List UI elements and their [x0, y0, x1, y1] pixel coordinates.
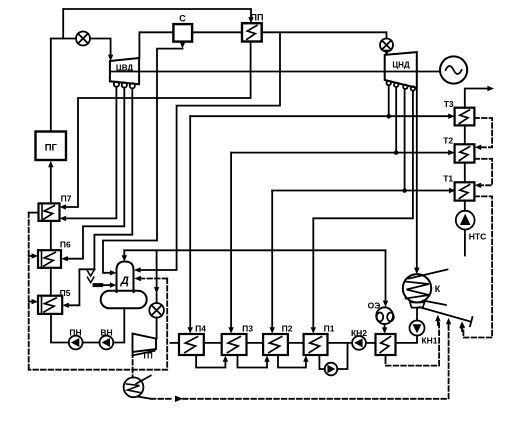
wire: P1 to P2 condensate: [288, 342, 304, 344]
svg-text:КН1: КН1: [421, 336, 437, 346]
wire: P3 to P4 condensate: [204, 342, 222, 344]
gland steam cooler SP: [124, 376, 151, 399]
CVD extraction nozzle 3: [130, 83, 135, 88]
wire: KN1 to OE cooler: [396, 336, 418, 343]
wire: SP drain (dashed) to condenser: [151, 398, 172, 400]
HP heater P7 box: [39, 194, 72, 221]
wire: KN2 to P1: [328, 342, 353, 344]
turbine HP cylinder CVD: [110, 58, 139, 84]
HP heater P5 box: [38, 288, 71, 314]
LP heater P3 box: [222, 324, 253, 356]
wire: extraction 3 down to junction: [404, 89, 406, 191]
end bar of drains header: [470, 317, 472, 326]
wire: extraction 4 to P1: [313, 91, 413, 329]
wire: into deaerator lower-left with arrow: [103, 284, 111, 286]
wire: extraction 1 drop to P4: [189, 116, 191, 328]
CND extraction nozzle 3: [403, 85, 407, 89]
wire: CVD extraction 1 to P7 lower inlet: [65, 87, 117, 219]
drain inlet arrow 2 (from SP cooler): [446, 318, 451, 325]
svg-text:ПП: ПП: [251, 13, 264, 23]
wire: fresh steam to HP cylinder inlet: [90, 39, 111, 57]
wire: network water line through T heaters: [465, 89, 489, 108]
generator G: [440, 56, 467, 83]
wire: VN to PN: [83, 342, 100, 344]
wire: branch to P5 inlet: [67, 269, 94, 305]
wire: extraction 1 down to junction: [388, 85, 390, 116]
wire: OE cooler to pump KN2: [366, 342, 376, 344]
condenser K: [403, 274, 441, 302]
wire: T3 to T2: [464, 125, 466, 144]
svg-text:ПН: ПН: [69, 327, 81, 337]
wire: TP exhaust (dashed) to gland steam cooler: [132, 353, 134, 378]
wire: P3 drain cascade to P2: [238, 355, 268, 368]
wire: extraction 1 header to T3: [190, 115, 450, 117]
svg-text:Т1: Т1: [443, 173, 453, 183]
pump KN1: [410, 321, 438, 346]
wire: T1 to NTC pump: [464, 201, 466, 211]
reducing valve (double chevron) on deaerator steam line: [91, 268, 95, 270]
wire: PP drain down and to P7 upper inlet: [65, 42, 251, 208]
pump NTC (network heat pump): [456, 211, 486, 242]
wire: T3 drain (dashed) to T2: [474, 118, 492, 147]
drain pump DN: [325, 363, 338, 376]
wire: PP heating steam tap (top line): [63, 9, 251, 39]
drive turbine TP: [133, 334, 157, 361]
wire: deaerator steam supply header: [124, 249, 385, 251]
wire: reheated steam PP to LP stop valve: [262, 32, 387, 38]
wire: separator drain to deaerator upper-left: [103, 49, 183, 273]
wire: CVD exhaust to separator: [139, 32, 173, 58]
valve V2 before LP cylinder: [380, 39, 393, 52]
LP heater P2 box: [263, 324, 293, 356]
wire: CVD extraction 3 down: [94, 88, 132, 269]
valve V3 before drive turbine: [149, 303, 164, 318]
main ejector OE: [368, 301, 394, 325]
HP heater P6 box: [38, 240, 71, 268]
wire: T2 drain (dashed) to T1: [474, 159, 492, 186]
wire: feedwater P5 to P6: [50, 268, 52, 296]
svg-text:КН2: КН2: [351, 328, 367, 338]
wire: feedwater P7 to PG with arrow: [50, 166, 52, 203]
svg-text:П3: П3: [242, 324, 253, 334]
wire: P1 drain to drain pump: [319, 355, 324, 369]
pump PN (feed pump): [69, 327, 83, 349]
wire: drain pump to condensate line: [337, 343, 347, 369]
turbine LP cylinder CND: [385, 52, 417, 88]
svg-text:П5: П5: [60, 288, 71, 298]
svg-text:П7: П7: [61, 194, 72, 204]
svg-text:К: К: [435, 284, 441, 294]
pump KN2: [351, 328, 367, 350]
svg-text:П1: П1: [324, 324, 335, 334]
network heater T1 box: [443, 173, 474, 200]
svg-text:ВН: ВН: [100, 327, 112, 337]
arrow at separator bottom: [180, 42, 185, 48]
circulating water pipe upper: [409, 270, 448, 279]
drain inlet arrow 3 (from T heaters): [459, 321, 464, 328]
pump VN (booster): [100, 327, 114, 349]
wire: CND exhaust to condenser: [416, 88, 418, 269]
node: junction extraction2/T2/P3: [394, 150, 399, 155]
wire: turbine shaft line: [111, 71, 441, 73]
wire: OE cooler drain (dashed) to condenser: [385, 355, 387, 359]
CVD extraction nozzle 2: [122, 82, 127, 87]
wire: PN to P5 feed: [51, 314, 69, 343]
separator S box: [173, 14, 192, 42]
svg-text:П6: П6: [60, 240, 71, 250]
svg-text:ПГ: ПГ: [45, 143, 58, 154]
CND extraction nozzle 4: [411, 86, 415, 90]
CND extraction nozzle 1: [387, 81, 391, 85]
CVD extraction nozzle 1: [114, 82, 119, 87]
svg-text:Т2: Т2: [443, 135, 453, 145]
wire: separator to reheater: [192, 31, 242, 33]
wire: extraction 3 header to T1: [272, 190, 451, 192]
wire: P4 drain cascade to P3: [196, 355, 225, 368]
ejector cooler OE box: [376, 334, 396, 355]
wire: CVD extraction 2 to P6 inlet: [66, 88, 124, 259]
wire: ejector steam supply: [385, 250, 387, 301]
wire: valve to LP inlet: [386, 51, 388, 52]
wire: hotwell to condensate pump KN1: [416, 308, 418, 321]
wire: P4 outlet stub to deaerator riser: [171, 342, 180, 344]
deaerator column D: [117, 262, 134, 293]
wire: T1 drain (dashed) to condenser: [463, 196, 492, 337]
svg-text:Т3: Т3: [444, 99, 454, 109]
wire: ejector to OE cooler box: [384, 324, 386, 329]
wire: extraction 2 down to junction: [395, 87, 397, 153]
drains header pipe into condenser: [420, 307, 471, 322]
drain inlet arrow 1 (from OE cooler): [435, 315, 440, 322]
svg-text:П4: П4: [195, 324, 206, 334]
wire: fresh steam reduced supply to deaerator right side: [138, 32, 281, 270]
wire: deaerator drain (dashed) from right side down: [140, 278, 167, 280]
wire: fresh steam riser PG top to main header: [51, 39, 76, 132]
network heater T2 box: [443, 135, 474, 162]
wire: extraction 3 drop to P2: [271, 191, 273, 329]
steam generator PG box: [36, 132, 67, 161]
svg-text:ТП: ТП: [142, 352, 153, 361]
circulating water pipe lower: [423, 301, 446, 306]
wire: turbine drive steam from header with arrow: [156, 250, 158, 291]
svg-text:НТС: НТС: [469, 232, 486, 242]
network heater T3 box: [444, 99, 475, 126]
svg-text:С: С: [179, 14, 186, 24]
svg-text:ОЭ: ОЭ: [368, 301, 381, 311]
valve V1 on fresh steam line: [76, 32, 90, 46]
wire: extraction 2 header to T2: [231, 152, 450, 154]
CND extraction nozzle 2: [394, 83, 398, 87]
svg-text:ЦНД: ЦНД: [392, 61, 410, 70]
wire: HP heaters drain cascade (dashed rail): [29, 212, 39, 214]
node: junction extraction3/T1/P2: [402, 188, 407, 193]
wire: feedwater P6 to P7: [50, 221, 52, 250]
wire: down into dome with arrow: [123, 250, 125, 256]
svg-text:Д: Д: [120, 275, 129, 287]
LP heater P4 box: [179, 324, 206, 356]
wire: network water return: [464, 230, 466, 256]
wire: P2 drain cascade to P1: [278, 355, 306, 368]
LP heater P1 box: [304, 324, 335, 356]
svg-text:П2: П2: [282, 324, 293, 334]
deaerator storage tank: [101, 291, 147, 309]
wire: P2 to P3 condensate: [247, 342, 264, 344]
wire: feedwater tank outlet down to pumps: [113, 308, 124, 342]
node: junction extraction1/T3/P4: [386, 114, 391, 119]
wire: extraction 2 drop to P3: [230, 153, 232, 329]
restrictor (filled bar): [93, 283, 104, 287]
wire: T2 to T1: [464, 163, 466, 183]
wire: valve to drive turbine: [156, 318, 158, 339]
reheater PP box: [242, 13, 263, 42]
condenser hotwell: [410, 302, 425, 307]
